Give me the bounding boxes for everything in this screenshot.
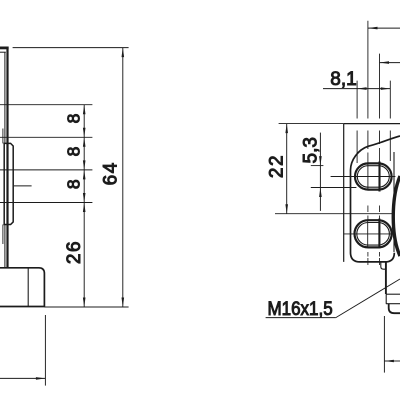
left view: flange xyxy=(4,143,13,224)
left view: shaft left edge xyxy=(4,52,6,268)
5,3 extension line bottom xyxy=(311,187,357,189)
top dim 1 arrow xyxy=(368,27,378,30)
bottom width dim extension line xyxy=(44,315,46,386)
top dim line 2 (y=62.6) xyxy=(380,62,400,64)
right view: rear body left edge xyxy=(343,124,345,262)
left view: base block xyxy=(0,268,44,307)
top dim 2 arrow xyxy=(380,61,390,64)
svg-text:26: 26 xyxy=(64,240,85,264)
earthing tab below flange xyxy=(381,262,386,269)
svg-text:8,1: 8,1 xyxy=(330,69,356,90)
top dim line 1 (y=28.1) xyxy=(368,27,400,29)
22 dim arrows xyxy=(285,124,288,214)
right view: flange left edge xyxy=(350,170,352,253)
5,3 dim line xyxy=(319,133,321,211)
right view: flange right edge xyxy=(393,152,395,252)
oval hole 1 outer xyxy=(355,163,392,189)
8,1 left arrow xyxy=(357,87,367,90)
stem cap xyxy=(389,304,400,313)
short center line y=185.9 xyxy=(14,185,32,187)
thick stem line xyxy=(385,262,387,294)
extension line x=390.3 xyxy=(389,81,391,161)
22 dim line xyxy=(286,124,288,214)
dimension extension line top (y=47.6) xyxy=(13,47,129,49)
extension line x=367.9 xyxy=(367,21,369,149)
oval hole 2 inner xyxy=(357,223,390,246)
svg-text:8: 8 xyxy=(64,114,84,124)
oval 2 horizontal center line xyxy=(344,233,395,235)
right view: big circle arc (body behind) xyxy=(393,176,400,256)
bottom right dim extension line xyxy=(383,316,385,373)
22 dim bottom extension / feature line y=213.7 xyxy=(275,213,395,215)
dim line 8-8-8-26 (x=84.2) xyxy=(83,105,85,307)
dimension extension line y=137.3 xyxy=(0,136,92,138)
stem left edge xyxy=(385,294,387,304)
dimension extension line y=169.9 xyxy=(0,169,92,171)
bottom right dim line xyxy=(384,360,400,362)
bottom width dim line xyxy=(0,377,45,379)
extension line x=379.5 xyxy=(379,54,381,144)
center line dashes x=379.5 xyxy=(379,148,381,265)
left view: shaft edge through flange xyxy=(6,144,8,225)
bottom width dim arrow xyxy=(36,377,46,380)
dim line 8,1 (y=88.6) xyxy=(323,88,390,90)
left view: part top cap xyxy=(0,47,9,50)
left view: top cap lip edge xyxy=(0,51,6,53)
bottom right dim arrow xyxy=(384,360,394,363)
dim line 64 (x=122.8) xyxy=(122,48,124,307)
arrows on x=84.2 dim line xyxy=(83,105,86,307)
dimension extension line y=202.5 xyxy=(0,202,92,204)
oval 2 vertical thick line (pin) xyxy=(378,219,380,249)
svg-text:8: 8 xyxy=(64,179,84,189)
right view: flange top edge arc xyxy=(368,136,400,146)
extension line x=357.1 xyxy=(356,81,358,163)
M16x1,5 leader line xyxy=(336,279,400,318)
svg-text:8: 8 xyxy=(64,147,84,157)
oval 1 vertical thin line xyxy=(367,164,369,190)
oval 1 horizontal center line xyxy=(331,176,396,178)
oval hole 1 inner xyxy=(357,166,389,188)
left view: shaft chamfer line upper xyxy=(2,129,4,144)
5,3 extension line top xyxy=(311,165,324,167)
arrows on x=122.8 dim line (64) xyxy=(122,48,125,307)
dimension extension line y=104.7 xyxy=(0,104,92,106)
stem bottom edge xyxy=(386,303,400,305)
8,1 right arrow xyxy=(381,87,391,90)
left view: base inner vertical line xyxy=(27,268,29,307)
M16x1,5 leader underline xyxy=(266,317,336,319)
center line dashes x=367.9 xyxy=(367,153,369,266)
left view: bottom extension line xyxy=(44,306,128,308)
oval 2 vertical thin line xyxy=(367,221,369,247)
left view: shaft right edge (thick) xyxy=(6,47,8,268)
svg-text:22: 22 xyxy=(267,154,288,178)
right view: flange top-left corner arc xyxy=(351,146,369,170)
stem top edge xyxy=(386,293,400,295)
svg-text:5,3: 5,3 xyxy=(301,137,322,163)
oval hole 2 outer xyxy=(355,220,392,247)
right view: rear body top edge xyxy=(344,123,400,125)
oval 1 vertical thick line (pin) xyxy=(378,162,380,192)
left view: shaft chamfer line lower xyxy=(2,225,4,245)
5,3 arrows (outside) xyxy=(319,156,322,197)
svg-text:64: 64 xyxy=(100,161,121,185)
svg-text:M16x1,5: M16x1,5 xyxy=(268,298,333,319)
22 dim top extension line xyxy=(279,123,344,125)
right view: flange bottom edge xyxy=(351,253,395,262)
